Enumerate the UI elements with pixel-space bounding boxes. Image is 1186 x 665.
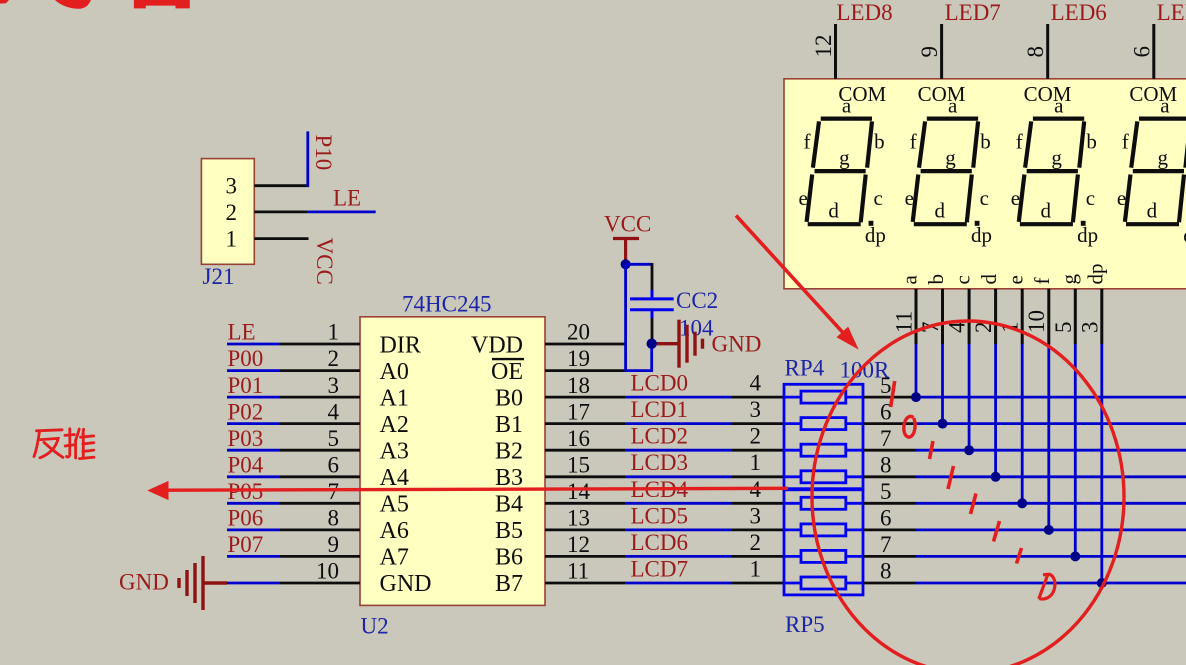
7-segment digit LED7 labels bbox=[905, 93, 992, 247]
resistor element 3 in pack bbox=[784, 444, 863, 456]
svg-text:11: 11 bbox=[567, 559, 589, 584]
svg-text:6: 6 bbox=[1129, 46, 1154, 58]
7-segment digit LED7 dp dot bbox=[975, 221, 980, 226]
resistor element 2 in pack bbox=[784, 418, 863, 430]
svg-text:4: 4 bbox=[750, 371, 762, 396]
svg-text:U2: U2 bbox=[361, 614, 389, 639]
resistor element 1 in pack bbox=[784, 391, 863, 403]
resistor pack left pin 1 stub bbox=[732, 582, 784, 585]
svg-text:b: b bbox=[924, 274, 948, 285]
wire segment row 8 to display columns bbox=[916, 582, 1186, 585]
svg-text:RP4: RP4 bbox=[785, 356, 825, 381]
svg-text:A2: A2 bbox=[380, 412, 409, 438]
red handwriting: tally dash 4 bbox=[994, 521, 1000, 542]
red handwriting: tally dash 3 bbox=[971, 494, 977, 515]
wire net GND to U2 pin 10 bbox=[226, 582, 280, 585]
svg-text:A6: A6 bbox=[380, 518, 409, 544]
IC U2 74HC245 body bbox=[360, 317, 545, 606]
svg-text:a: a bbox=[842, 93, 852, 117]
J21 pin 1 stub bbox=[254, 237, 308, 240]
node junction c bbox=[964, 445, 974, 455]
svg-text:1: 1 bbox=[750, 557, 762, 582]
wire net LCD7 bbox=[626, 582, 732, 585]
display COM pin 8 (digit LED6) bbox=[1046, 24, 1049, 79]
svg-text:VDD: VDD bbox=[471, 332, 523, 358]
svg-text:B6: B6 bbox=[495, 545, 523, 571]
svg-text:B7: B7 bbox=[495, 571, 523, 597]
node GND junction at capacitor bbox=[647, 339, 657, 349]
svg-text:LED5: LED5 bbox=[1157, 0, 1186, 25]
svg-text:e: e bbox=[1004, 275, 1028, 284]
svg-text:LCD3: LCD3 bbox=[631, 450, 689, 475]
node junction b bbox=[938, 419, 948, 429]
J21 pin 3 stub bbox=[254, 184, 309, 187]
svg-text:2: 2 bbox=[750, 424, 762, 449]
svg-text:a: a bbox=[948, 93, 958, 117]
wire net P01 bbox=[227, 396, 280, 399]
node VCC junction bbox=[621, 259, 631, 269]
resistor pack RP5 body bbox=[784, 490, 863, 595]
wire column d vertical bbox=[994, 344, 997, 477]
7-segment digit LED6 labels bbox=[1011, 93, 1098, 247]
svg-text:d: d bbox=[828, 198, 839, 222]
wire net P04 bbox=[227, 475, 280, 478]
svg-text:c: c bbox=[951, 275, 975, 284]
power symbol VCC bbox=[613, 239, 639, 264]
svg-text:10: 10 bbox=[316, 559, 339, 584]
svg-text:VCC: VCC bbox=[604, 212, 651, 237]
connector J21 body bbox=[201, 159, 254, 265]
svg-text:A7: A7 bbox=[380, 545, 409, 571]
wire net P06 bbox=[227, 529, 280, 532]
svg-text:P02: P02 bbox=[228, 399, 264, 424]
svg-text:20: 20 bbox=[567, 320, 590, 345]
red handwriting: tally dash 2 bbox=[948, 466, 954, 489]
resistor pack RP4 body bbox=[784, 384, 863, 488]
wire segment row 1 to display columns bbox=[916, 396, 1186, 399]
svg-text:15: 15 bbox=[567, 452, 590, 477]
svg-text:P04: P04 bbox=[228, 452, 264, 477]
wire junction to OE pin 19 bbox=[650, 344, 653, 371]
U2 pin 19 (OE) stub bbox=[545, 369, 626, 372]
wire VCC junction to capacitor branch bbox=[626, 263, 652, 266]
U2 pin 14 (B4) stub bbox=[545, 502, 626, 505]
svg-text:17: 17 bbox=[567, 399, 590, 424]
U2 pin 11 (B7) stub bbox=[545, 582, 626, 585]
wire column b vertical bbox=[941, 344, 944, 424]
svg-text:dp: dp bbox=[1077, 223, 1098, 247]
display segment pin c (pin 4) stub bbox=[968, 289, 971, 344]
svg-text:B1: B1 bbox=[495, 412, 523, 438]
wire net LCD4 bbox=[626, 502, 732, 505]
svg-text:a: a bbox=[898, 275, 922, 285]
svg-text:d: d bbox=[977, 274, 1001, 285]
svg-text:LED7: LED7 bbox=[945, 0, 1001, 25]
7-segment digit LED8 labels bbox=[799, 93, 886, 247]
wire column g vertical bbox=[1074, 344, 1077, 556]
svg-text:19: 19 bbox=[567, 346, 590, 371]
svg-text:2: 2 bbox=[328, 346, 340, 371]
svg-text:COM: COM bbox=[1024, 82, 1072, 106]
svg-text:7: 7 bbox=[328, 479, 340, 504]
svg-text:OE: OE bbox=[491, 359, 523, 385]
node junction dp bbox=[1097, 578, 1107, 588]
wire net LE at J21 bbox=[308, 210, 376, 213]
U2 pin 4 (A2) stub bbox=[280, 422, 360, 425]
svg-text:LE: LE bbox=[228, 320, 256, 345]
resistor pack left pin 2 stub bbox=[732, 555, 784, 558]
resistor element 5 in pack bbox=[784, 497, 863, 509]
wire segment row 5 to display columns bbox=[916, 502, 1186, 505]
svg-text:VCC: VCC bbox=[312, 238, 337, 285]
svg-text:8: 8 bbox=[880, 559, 892, 584]
display COM pin 12 (digit LED8) bbox=[834, 24, 837, 79]
svg-text:LCD7: LCD7 bbox=[631, 557, 689, 582]
ground symbol (left, power ground) bbox=[179, 556, 227, 610]
resistor pack left pin 1 stub bbox=[732, 475, 784, 478]
wire net P02 bbox=[227, 422, 280, 425]
U2 pin 16 (B2) stub bbox=[545, 449, 626, 452]
U2 pin 20 (VDD) stub bbox=[545, 343, 626, 346]
svg-text:A4: A4 bbox=[380, 465, 409, 491]
node junction f bbox=[1044, 525, 1054, 535]
svg-text:2: 2 bbox=[750, 530, 762, 555]
svg-text:B4: B4 bbox=[495, 492, 523, 518]
svg-text:GND: GND bbox=[380, 571, 432, 597]
svg-text:e: e bbox=[905, 186, 914, 210]
svg-text:3: 3 bbox=[1077, 322, 1102, 334]
resistor pack left pin 3 stub bbox=[732, 422, 784, 425]
svg-text:1: 1 bbox=[226, 226, 238, 251]
svg-text:LED6: LED6 bbox=[1051, 0, 1107, 25]
svg-text:d: d bbox=[1147, 198, 1158, 222]
svg-text:LCD5: LCD5 bbox=[631, 503, 689, 528]
resistor pack right pin 6 stub bbox=[863, 529, 916, 532]
svg-text:A3: A3 bbox=[380, 439, 409, 465]
svg-text:LED8: LED8 bbox=[836, 0, 892, 25]
resistor element 4 in pack bbox=[784, 471, 863, 483]
wire column f vertical bbox=[1047, 344, 1050, 530]
svg-text:3: 3 bbox=[328, 373, 340, 398]
svg-text:7: 7 bbox=[880, 426, 892, 451]
svg-text:g: g bbox=[1057, 274, 1081, 285]
resistor pack left pin 3 stub bbox=[732, 529, 784, 532]
red annotation remnant (cut-off bracket stroke, top) bbox=[134, 0, 190, 8]
svg-text:1: 1 bbox=[328, 320, 340, 345]
wire column c vertical bbox=[968, 344, 971, 450]
resistor pack right pin 5 stub bbox=[863, 396, 916, 399]
wire net LCD5 bbox=[626, 529, 732, 532]
svg-text:e: e bbox=[799, 186, 808, 210]
display segment pin d (pin 2) stub bbox=[994, 289, 997, 344]
svg-text:7: 7 bbox=[880, 532, 892, 557]
svg-text:LCD1: LCD1 bbox=[631, 397, 689, 422]
wire net LE bbox=[227, 343, 280, 346]
display segment pin a (pin 11) stub bbox=[915, 289, 918, 344]
svg-text:1: 1 bbox=[750, 450, 762, 475]
svg-text:COM: COM bbox=[918, 82, 966, 106]
wire net P07 bbox=[227, 555, 280, 558]
wire net P05 bbox=[227, 502, 280, 505]
resistor pack left pin 4 stub bbox=[732, 502, 784, 505]
svg-text:3: 3 bbox=[226, 173, 238, 198]
display COM pin 6 (digit LED5) bbox=[1152, 24, 1155, 79]
red handwriting: slash bbox=[891, 381, 895, 407]
svg-text:e: e bbox=[1011, 186, 1020, 210]
display segment pin b (pin 7) stub bbox=[941, 289, 944, 344]
display segment pin f (pin 10) stub bbox=[1047, 289, 1050, 344]
red annotation text 反推 bbox=[34, 429, 94, 459]
svg-text:16: 16 bbox=[567, 426, 590, 451]
resistor pack right pin 8 stub bbox=[863, 475, 916, 478]
svg-text:LCD2: LCD2 bbox=[631, 424, 689, 449]
7-segment digit LED5 segments bbox=[1125, 119, 1186, 225]
U2 pin 9 (A7) stub bbox=[280, 555, 360, 558]
7-segment digit LED8 segments bbox=[807, 119, 872, 225]
svg-text:B2: B2 bbox=[495, 439, 523, 465]
U2 pin 6 (A4) stub bbox=[280, 475, 360, 478]
svg-text:11: 11 bbox=[892, 311, 917, 333]
svg-text:d: d bbox=[934, 198, 945, 222]
U2 pin 10 (GND) stub bbox=[280, 582, 360, 585]
svg-text:dp: dp bbox=[865, 223, 886, 247]
svg-text:f: f bbox=[804, 130, 811, 154]
svg-text:DIR: DIR bbox=[380, 332, 421, 358]
red annotation remnant (cut-off curved stroke, top) bbox=[55, 0, 91, 9]
wire net LCD2 bbox=[626, 449, 732, 452]
svg-text:5: 5 bbox=[328, 426, 340, 451]
wire net LCD1 bbox=[626, 422, 732, 425]
wire net P10 (vertical) bbox=[306, 131, 309, 187]
wire net P03 bbox=[227, 449, 280, 452]
svg-text:a: a bbox=[1160, 93, 1170, 117]
U2 pin 7 (A5) stub bbox=[280, 502, 360, 505]
capacitor CC2 plates bbox=[630, 290, 674, 318]
wire segment row 7 to display columns bbox=[916, 555, 1186, 558]
svg-text:b: b bbox=[1086, 130, 1097, 154]
svg-text:c: c bbox=[980, 186, 989, 210]
svg-text:f: f bbox=[910, 130, 917, 154]
resistor pack right pin 7 stub bbox=[863, 555, 916, 558]
svg-text:B5: B5 bbox=[495, 518, 523, 544]
red handwriting: tally dash 5 bbox=[1017, 548, 1022, 564]
svg-text:GND: GND bbox=[119, 570, 169, 595]
svg-text:A0: A0 bbox=[380, 359, 409, 385]
svg-text:6: 6 bbox=[880, 506, 892, 531]
wire VCC vertical to U2 pin 20 / pin 19 row bbox=[624, 264, 627, 370]
resistor element 8 in pack bbox=[784, 577, 863, 589]
U2 pin 5 (A3) stub bbox=[280, 449, 360, 452]
capacitor CC2 top lead bbox=[651, 263, 654, 298]
resistor pack right pin 5 stub bbox=[863, 502, 916, 505]
svg-text:10: 10 bbox=[1024, 310, 1049, 333]
resistor pack right pin 7 stub bbox=[863, 449, 916, 452]
svg-text:P10: P10 bbox=[311, 135, 336, 171]
node junction d bbox=[991, 472, 1001, 482]
svg-text:b: b bbox=[874, 130, 885, 154]
U2 pin 17 (B1) stub bbox=[545, 422, 626, 425]
U2 pin 2 (A0) stub bbox=[280, 369, 360, 372]
svg-text:e: e bbox=[1117, 186, 1126, 210]
U2 pin 12 (B6) stub bbox=[545, 555, 626, 558]
svg-text:13: 13 bbox=[567, 506, 590, 531]
svg-text:B3: B3 bbox=[495, 465, 523, 491]
svg-text:2: 2 bbox=[226, 200, 238, 225]
wire segment row 6 to display columns bbox=[916, 529, 1186, 532]
svg-text:18: 18 bbox=[567, 373, 590, 398]
red annotation diagonal arrow bbox=[736, 216, 857, 348]
svg-text:8: 8 bbox=[1023, 46, 1048, 58]
svg-text:4: 4 bbox=[328, 399, 340, 424]
svg-text:P01: P01 bbox=[228, 373, 264, 398]
7-segment digit LED6 segments bbox=[1019, 119, 1084, 225]
svg-text:dp: dp bbox=[971, 223, 992, 247]
wire net LCD6 bbox=[626, 555, 732, 558]
display segment pin g (pin 5) stub bbox=[1074, 289, 1077, 344]
svg-text:5: 5 bbox=[880, 373, 892, 398]
svg-text:c: c bbox=[874, 186, 883, 210]
node junction a bbox=[911, 392, 921, 402]
svg-text:b: b bbox=[980, 130, 991, 154]
wire segment row 2 to display columns bbox=[916, 422, 1186, 425]
U2 pin 13 (B5) stub bbox=[545, 529, 626, 532]
resistor element 7 in pack bbox=[784, 550, 863, 562]
svg-text:3: 3 bbox=[750, 397, 762, 422]
7-segment digit LED7 segments bbox=[913, 119, 978, 225]
svg-text:a: a bbox=[1054, 93, 1064, 117]
wire net LCD3 bbox=[626, 475, 732, 478]
U2 pin 15 (B3) stub bbox=[545, 475, 626, 478]
wire column dp vertical bbox=[1100, 344, 1103, 583]
svg-text:f: f bbox=[1030, 278, 1054, 285]
U2 pin 18 (B0) stub bbox=[545, 396, 626, 399]
resistor pack left pin 2 stub bbox=[732, 449, 784, 452]
svg-text:14: 14 bbox=[567, 479, 591, 504]
svg-text:A1: A1 bbox=[380, 385, 409, 411]
svg-text:P07: P07 bbox=[228, 532, 264, 557]
svg-text:5: 5 bbox=[880, 479, 892, 504]
resistor pack right pin 6 stub bbox=[863, 422, 916, 425]
svg-text:12: 12 bbox=[811, 35, 836, 58]
wire net LCD0 bbox=[626, 396, 732, 399]
resistor pack right pin 8 stub bbox=[863, 582, 916, 585]
7-segment digit LED5 labels bbox=[1117, 93, 1186, 247]
svg-text:g: g bbox=[1157, 146, 1168, 170]
svg-text:RP5: RP5 bbox=[785, 612, 825, 637]
red handwriting: tally dash 1 bbox=[930, 441, 934, 459]
svg-text:g: g bbox=[1051, 146, 1062, 170]
svg-text:f: f bbox=[1122, 130, 1129, 154]
svg-text:9: 9 bbox=[328, 532, 340, 557]
J21 pin 2 stub bbox=[254, 210, 307, 213]
svg-text:5: 5 bbox=[1051, 322, 1076, 334]
red annotation horizontal arrow (strike through LCD4 row) bbox=[150, 482, 788, 498]
svg-text:CC2: CC2 bbox=[676, 288, 718, 313]
svg-text:3: 3 bbox=[750, 503, 762, 528]
display segment pin e (pin 1) stub bbox=[1021, 289, 1024, 344]
node junction g bbox=[1070, 551, 1080, 561]
resistor element 6 in pack bbox=[784, 524, 863, 536]
svg-text:P00: P00 bbox=[228, 346, 264, 371]
svg-text:g: g bbox=[839, 146, 850, 170]
svg-text:c: c bbox=[1086, 186, 1095, 210]
wire column e vertical bbox=[1021, 344, 1024, 503]
capacitor CC2 bottom lead bbox=[651, 318, 654, 344]
wire segment row 3 to display columns bbox=[916, 449, 1186, 452]
wire column a vertical bbox=[915, 344, 918, 397]
svg-text:74HC245: 74HC245 bbox=[402, 292, 491, 317]
svg-text:8: 8 bbox=[880, 452, 892, 477]
7-segment display module body bbox=[784, 79, 1186, 289]
node junction e bbox=[1017, 498, 1027, 508]
svg-text:LCD0: LCD0 bbox=[631, 371, 689, 396]
svg-text:9: 9 bbox=[917, 46, 942, 58]
red handwriting: D mark bbox=[1039, 574, 1055, 599]
7-segment digit LED6 dp dot bbox=[1081, 221, 1086, 226]
svg-text:B0: B0 bbox=[495, 385, 523, 411]
svg-text:d: d bbox=[1041, 198, 1052, 222]
ground symbol (right, at CC2) bbox=[652, 320, 703, 368]
svg-text:GND: GND bbox=[712, 332, 762, 357]
red handwriting: zero mark bbox=[904, 416, 915, 437]
U2 pin 8 (A6) stub bbox=[280, 529, 360, 532]
svg-text:COM: COM bbox=[1129, 82, 1177, 106]
wire segment row 4 to display columns bbox=[916, 475, 1186, 478]
display COM pin 9 (digit LED7) bbox=[940, 24, 943, 79]
svg-text:12: 12 bbox=[567, 532, 590, 557]
svg-text:g: g bbox=[945, 146, 956, 170]
red annotation ellipse bbox=[812, 321, 1124, 665]
svg-text:J21: J21 bbox=[203, 264, 235, 289]
display segment pin dp (pin 3) stub bbox=[1100, 289, 1103, 344]
svg-text:dp: dp bbox=[1083, 264, 1107, 285]
7-segment digit LED8 dp dot bbox=[869, 221, 874, 226]
red annotation remnant (cut-off handwriting, top-left corner) bbox=[0, 0, 9, 4]
svg-text:8: 8 bbox=[328, 506, 340, 531]
svg-text:A5: A5 bbox=[380, 492, 409, 518]
U2 pin 1 (DIR) stub bbox=[280, 343, 360, 346]
svg-text:P03: P03 bbox=[228, 426, 264, 451]
wire net P00 bbox=[227, 369, 280, 372]
svg-text:f: f bbox=[1016, 130, 1023, 154]
svg-text:P06: P06 bbox=[228, 506, 264, 531]
U2 pin 3 (A1) stub bbox=[280, 396, 360, 399]
OE overline bbox=[492, 358, 524, 360]
resistor pack left pin 4 stub bbox=[732, 396, 784, 399]
svg-text:6: 6 bbox=[328, 452, 340, 477]
svg-text:LE: LE bbox=[333, 186, 361, 211]
svg-text:LCD6: LCD6 bbox=[631, 530, 689, 555]
